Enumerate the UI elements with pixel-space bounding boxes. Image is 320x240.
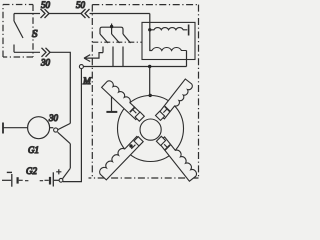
wire to pull-in winding (150, 30, 152, 51)
wire 30 jog into generator junction (58, 123, 71, 168)
battery short plate left (17, 177, 19, 183)
wire battery positive diagonal (63, 168, 71, 178)
stator pole arm NW with field winding edge (102, 81, 142, 120)
wire generator to junction (50, 127, 54, 129)
wire terminal 30 from switch (14, 51, 40, 53)
svg-text:50: 50 (76, 0, 86, 10)
battery wire to terminal (54, 179, 59, 181)
svg-text:G1: G1 (28, 145, 39, 155)
junction dot winding feed (148, 28, 151, 31)
stator pole arm SE with field winding edge (158, 137, 196, 181)
battery positive terminal circle (59, 178, 63, 182)
connector chevrons >> on wire 50 (41, 9, 50, 18)
wire drop to motor frame (149, 67, 151, 96)
junction dot brush to frame (129, 144, 132, 147)
switch S (14, 14, 23, 53)
motor stator ring (118, 96, 184, 162)
battery short plate right (49, 177, 51, 185)
wire M to motor junction (83, 66, 186, 68)
terminal 30 junction circle (54, 128, 58, 132)
winding core end bar (188, 25, 190, 36)
label minus (7, 171, 12, 173)
connector chevrons >> on wire 30 (42, 48, 51, 57)
generator G1 body (28, 117, 50, 139)
mechanical link (dash-dot) from solenoid to contacts (92, 41, 142, 43)
moving contact arrow toward terminal M (84, 53, 103, 62)
junction dot on stator ring (149, 94, 152, 97)
relay contact top bar with junction (100, 24, 123, 35)
wire 50 between connectors (49, 13, 81, 15)
relay fixed posts (103, 47, 123, 67)
battery G2 wire left (2, 179, 11, 181)
wire 50 drop to windings (149, 14, 151, 30)
wire 50 into starter to solenoid winding (90, 13, 150, 15)
junction dot contacts bar (110, 25, 113, 28)
battery long plate left (11, 174, 13, 187)
wire pull-in winding to motor junction (186, 51, 188, 67)
wire terminal 50 from switch (14, 13, 40, 15)
brush lower-right (156, 136, 170, 150)
solenoid hold-in winding (top coil) (152, 28, 188, 30)
battery long plate right (52, 172, 54, 186)
generator chassis bar (2, 123, 4, 134)
stator pole arm SW with field winding edge (100, 136, 143, 180)
wire chassis to generator (3, 127, 28, 129)
wire 30 to down corner (50, 52, 70, 123)
svg-text:30: 30 (40, 58, 51, 68)
svg-text:M: M (82, 77, 92, 87)
battery gap dash right and stub (40, 179, 49, 181)
brush lower-left (131, 137, 143, 149)
motor frame ground bar (106, 111, 117, 113)
svg-text:S: S (32, 28, 38, 40)
connector chevrons << on wire 50 (81, 9, 90, 18)
relay contact blades (three diagonals) (100, 34, 131, 43)
motor frame ground stem (111, 97, 113, 112)
wire from terminal M down to battery (63, 69, 81, 182)
battery stub and gap dash left (19, 179, 29, 181)
switch S enclosure (dash-dot box) (3, 5, 33, 58)
starter enclosure (big dash-dot box) (89, 5, 199, 178)
relay contact middle stem (111, 27, 113, 34)
svg-text:G2: G2 (26, 166, 37, 176)
armature circle (140, 119, 161, 140)
brush upper-right (156, 106, 170, 120)
solenoid pull-in winding (bottom coil) (152, 47, 187, 50)
solenoid frame rectangle (142, 22, 195, 59)
svg-text:30: 30 (48, 113, 59, 123)
stator pole arm NE with field winding edge (158, 79, 192, 119)
junction dot M wire to motor (148, 65, 151, 68)
terminal M circle (79, 65, 83, 69)
brush upper-left (130, 107, 144, 121)
label plus (56, 169, 61, 174)
svg-text:50: 50 (41, 0, 51, 10)
